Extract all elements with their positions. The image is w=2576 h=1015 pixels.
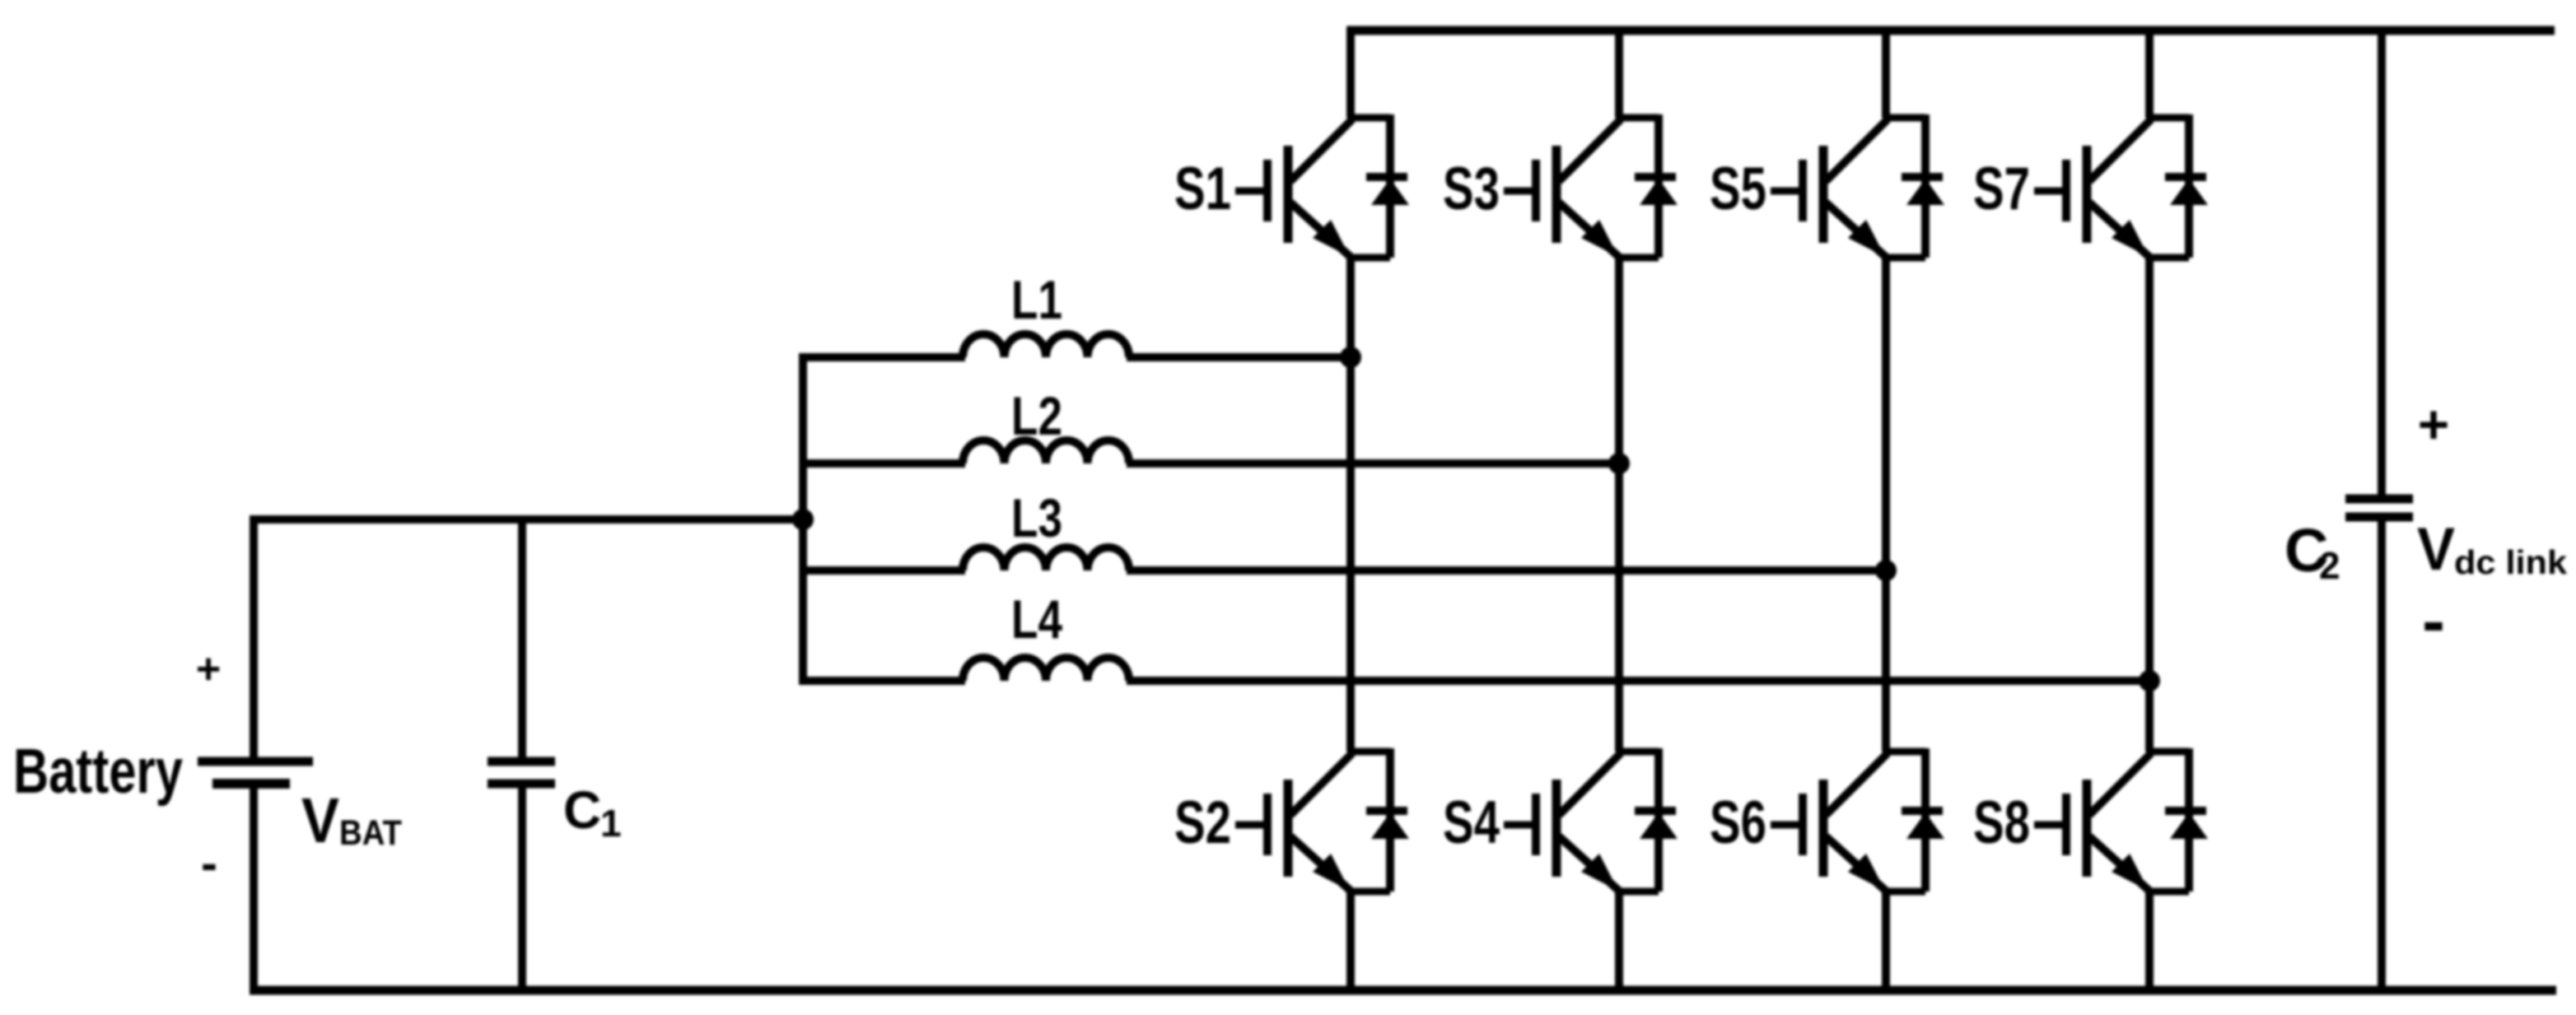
wire: L3 to phase-leg midpoint [1127, 566, 1886, 575]
wire: S2 emitter jog [1347, 888, 1390, 896]
svg-text:V: V [301, 785, 339, 856]
junction: L1 / phase leg [1340, 347, 1361, 368]
wire: bus to L1 [799, 353, 965, 361]
label: battery - polarity [201, 836, 217, 891]
label: S7 [1973, 156, 2030, 222]
label: C2 [2284, 516, 2340, 587]
wire: S6 emitter jog [1883, 888, 1925, 896]
transistor S1 (IGBT) [1235, 119, 1352, 258]
svg-text:L3: L3 [1011, 487, 1062, 548]
label: Vdc link output - [2422, 582, 2445, 659]
wire: bus to L2 [799, 459, 965, 468]
junction: L2 / phase leg [1608, 453, 1630, 474]
wire: S7 collector jog [2146, 114, 2189, 122]
label: L3 [1011, 487, 1062, 548]
svg-text:C: C [563, 780, 601, 840]
wire: L4 to phase-leg midpoint [1127, 677, 2149, 685]
label: L4 [1011, 589, 1062, 650]
wire: S8 emitter to bottom rail [2145, 892, 2154, 994]
svg-text:S3: S3 [1443, 156, 1500, 222]
label: Vdc link value [2417, 516, 2567, 583]
svg-text:+: + [2418, 393, 2450, 454]
inductor L3 [963, 547, 1129, 570]
svg-text:1: 1 [600, 802, 622, 845]
wire: bus to L4 [799, 677, 965, 685]
wire: S1 emitter jog [1347, 254, 1390, 262]
svg-text:V: V [2417, 516, 2455, 583]
capacitor C1 [488, 761, 555, 784]
battery VBAT (cell symbol) [198, 761, 313, 784]
transistor S8 (IGBT) [2034, 753, 2151, 892]
wire: S3 emitter jog [1616, 254, 1659, 262]
wire: top DC+ rail [1347, 26, 2555, 35]
svg-text:2: 2 [2319, 544, 2340, 587]
label: C1 [563, 780, 622, 845]
svg-text:BAT: BAT [339, 813, 402, 853]
svg-text:S6: S6 [1710, 789, 1766, 856]
diode D2 (antiparallel with S2) [1366, 748, 1409, 892]
wire: battery bottom lead [250, 788, 258, 990]
wire: S4 emitter to bottom rail [1615, 892, 1623, 994]
inductor L2 [963, 440, 1129, 463]
label: S1 [1174, 156, 1231, 222]
inductor L4 [963, 658, 1129, 681]
wire: top rail to S3 collector [1615, 26, 1623, 118]
svg-text:S8: S8 [1973, 789, 2030, 856]
diode D1 (antiparallel with S1) [1366, 114, 1409, 258]
svg-text:L1: L1 [1011, 269, 1062, 330]
label: L2 [1011, 385, 1062, 446]
wire: S7 emitter to S8 collector (phase node) [2145, 258, 2154, 752]
svg-text:S2: S2 [1174, 789, 1231, 856]
svg-text:-: - [201, 836, 217, 891]
wire: S5 collector jog [1883, 114, 1925, 122]
wire: S1 collector jog [1347, 114, 1390, 122]
label: Battery [13, 736, 183, 807]
wire: S2 emitter to bottom rail [1346, 892, 1355, 994]
svg-text:dc link: dc link [2454, 543, 2567, 581]
wire: top rail to S5 collector [1882, 26, 1890, 118]
transistor S7 (IGBT) [2034, 119, 2151, 258]
diode D7 (antiparallel with S7) [2165, 114, 2208, 258]
wire: S6 collector jog [1883, 748, 1925, 756]
wire: S4 collector jog [1616, 748, 1659, 756]
wire: top rail to S1 collector [1346, 26, 1355, 118]
label: L1 [1011, 269, 1062, 330]
label: S4 [1443, 789, 1500, 856]
transistor S6 (IGBT) [1771, 753, 1888, 892]
diode D5 (antiparallel with S5) [1902, 114, 1944, 258]
wire: battery top lead [250, 515, 258, 758]
svg-text:-: - [2422, 582, 2445, 659]
capacitor C2 [2345, 499, 2413, 517]
wire: S4 emitter jog [1616, 888, 1659, 896]
wire: top rail to S7 collector [2145, 26, 2154, 118]
wire: battery positive rail to inductor bus [254, 515, 803, 524]
wire: inductor input bus (vertical) [799, 357, 807, 681]
label: S6 [1710, 789, 1766, 856]
transistor S5 (IGBT) [1771, 119, 1888, 258]
svg-text:Battery: Battery [13, 736, 183, 807]
wire: S1 emitter to S2 collector (phase node) [1346, 258, 1355, 752]
wire: S2 collector jog [1347, 748, 1390, 756]
diode D6 (antiparallel with S6) [1902, 748, 1944, 892]
label: S5 [1710, 156, 1766, 222]
transistor S2 (IGBT) [1235, 753, 1352, 892]
wire: C2 top lead [2378, 26, 2386, 496]
wire: C1 top lead [518, 515, 526, 758]
label: VBAT value [301, 785, 402, 856]
junction: L4 / phase leg [2139, 670, 2160, 691]
svg-text:+: + [196, 645, 221, 693]
wire: C1 bottom lead [518, 788, 526, 990]
junction: battery rail / inductor bus [792, 509, 814, 530]
wire: L2 to phase-leg midpoint [1127, 459, 1619, 468]
svg-text:L4: L4 [1011, 589, 1062, 650]
transistor S4 (IGBT) [1504, 753, 1621, 892]
diode D8 (antiparallel with S8) [2165, 748, 2208, 892]
wire: S5 emitter to S6 collector (phase node) [1882, 258, 1890, 752]
junction: L3 / phase leg [1875, 560, 1897, 581]
wire: S5 emitter jog [1883, 254, 1925, 262]
wire: S8 emitter jog [2146, 888, 2189, 896]
wire: S3 emitter to S4 collector (phase node) [1615, 258, 1623, 752]
wire: S3 collector jog [1616, 114, 1659, 122]
label: S3 [1443, 156, 1500, 222]
wire: bottom DC- rail [250, 986, 2556, 995]
svg-text:S4: S4 [1443, 789, 1500, 856]
wire: bus to L3 [799, 566, 965, 575]
label: S2 [1174, 789, 1231, 856]
transistor S3 (IGBT) [1504, 119, 1621, 258]
inductor L1 [963, 334, 1129, 357]
wire: S8 collector jog [2146, 748, 2189, 756]
svg-text:L2: L2 [1011, 385, 1062, 446]
wire: L1 to phase-leg midpoint [1127, 353, 1351, 361]
label: Vdc link output + [2418, 393, 2450, 454]
diode D3 (antiparallel with S3) [1635, 114, 1678, 258]
svg-text:S7: S7 [1973, 156, 2030, 222]
wire: S6 emitter to bottom rail [1882, 892, 1890, 994]
label: battery + polarity [196, 645, 221, 693]
svg-text:S5: S5 [1710, 156, 1766, 222]
diode D4 (antiparallel with S4) [1635, 748, 1678, 892]
wire: S7 emitter jog [2146, 254, 2189, 262]
wire: C2 bottom lead [2378, 520, 2386, 990]
label: S8 [1973, 789, 2030, 856]
svg-text:S1: S1 [1174, 156, 1231, 222]
